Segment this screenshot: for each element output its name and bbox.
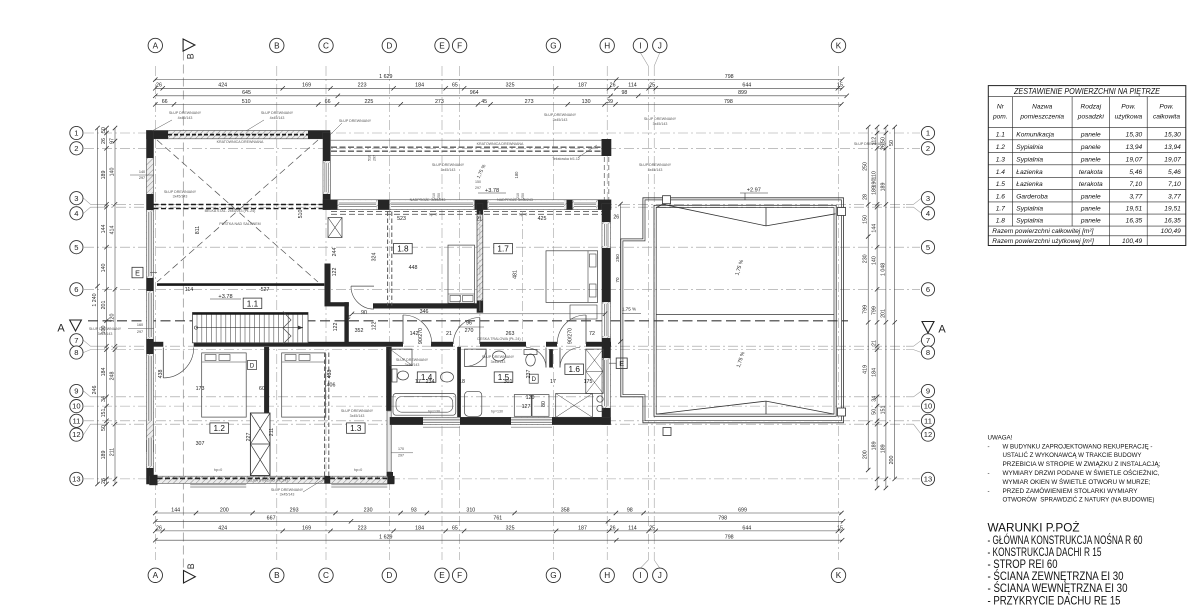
svg-text:A: A <box>57 323 65 335</box>
svg-text:100,49: 100,49 <box>1161 228 1182 235</box>
wall: top wall of rooms 1.8/1.7 (rows 3-4) <box>323 200 611 210</box>
svg-text:7,10: 7,10 <box>1168 181 1181 188</box>
svg-text:użytkowa: użytkowa <box>1115 114 1143 121</box>
svg-text:1.6: 1.6 <box>996 194 1005 201</box>
wall: divider bathrooms 1.4/1.5 (F axis) <box>457 347 461 418</box>
grid rows (dashed construction lines 1-13) <box>84 133 922 479</box>
wall: right outer wall (H axis, rooms 1.7/1.6) <box>602 204 611 425</box>
beam: glulam beam in top wall (bold dashes) <box>168 134 308 136</box>
svg-text:297: 297 <box>475 186 481 190</box>
svg-text:W BUDYNKU ZAPROJEKTOWANO REKUP: W BUDYNKU ZAPROJEKTOWANO REKUPERACJĘ - <box>1003 443 1153 450</box>
svg-text:posadzki: posadzki <box>1077 114 1105 121</box>
svg-text:7: 7 <box>74 336 78 345</box>
svg-text:799: 799 <box>863 305 869 314</box>
svg-text:4x45/143: 4x45/143 <box>178 116 193 120</box>
room label 1.2 <box>210 423 229 433</box>
svg-text:15: 15 <box>837 83 843 89</box>
svg-text:1 240: 1 240 <box>92 293 98 306</box>
svg-text:13: 13 <box>924 475 932 484</box>
svg-text:201: 201 <box>880 309 886 318</box>
svg-text:169: 169 <box>302 525 311 531</box>
svg-text:3x45/143: 3x45/143 <box>173 195 188 199</box>
svg-text:414: 414 <box>109 226 115 235</box>
svg-text:150: 150 <box>863 215 869 224</box>
bottom dimension chain row 1 <box>155 512 841 514</box>
svg-text:1.1: 1.1 <box>247 299 259 308</box>
bottom dimension chain row 2 <box>155 520 843 522</box>
svg-text:4: 4 <box>926 209 930 218</box>
svg-text:811: 811 <box>195 226 201 234</box>
wall: divider rooms 1.2/1.3 <box>264 347 269 413</box>
lintel dashes under top wall of 1.8/1.7 <box>331 210 610 212</box>
svg-text:pomieszczenia: pomieszczenia <box>1019 114 1064 121</box>
bed in room 1.3 <box>282 353 326 417</box>
svg-text:250: 250 <box>863 162 869 171</box>
svg-text:481: 481 <box>512 270 518 279</box>
svg-text:Sypialnia: Sypialnia <box>1016 218 1043 225</box>
svg-text:273: 273 <box>525 99 534 105</box>
svg-text:144: 144 <box>171 507 180 513</box>
tall bathtub in 1.5 <box>465 391 482 416</box>
svg-text:100,49: 100,49 <box>1122 238 1143 245</box>
window tag E <box>609 362 616 364</box>
svg-text:A: A <box>153 41 159 50</box>
svg-text:21: 21 <box>872 340 878 346</box>
notes WARUNKI P.POZ <box>988 521 1143 608</box>
dim line 346 over corridor <box>352 313 605 315</box>
svg-text:21: 21 <box>446 331 452 337</box>
svg-text:189: 189 <box>880 183 886 192</box>
roof plan inner edge (double) <box>654 205 836 416</box>
line under 96 dim <box>458 326 484 328</box>
svg-text:34: 34 <box>872 396 878 402</box>
door tag D (room 1.2) <box>248 361 257 370</box>
door to garderoba 1.6 <box>560 348 580 368</box>
svg-text:144: 144 <box>872 224 878 233</box>
room label 1.7 <box>494 243 513 253</box>
svg-text:5,46: 5,46 <box>1129 169 1142 176</box>
svg-text:200: 200 <box>889 456 895 465</box>
svg-text:1.1: 1.1 <box>996 131 1005 138</box>
svg-text:-: - <box>988 470 990 477</box>
svg-text:USTALIĆ Z WYKONAWCĄ W TRAKCIE: USTALIĆ Z WYKONAWCĄ W TRAKCIE BUDOWY <box>1003 452 1142 459</box>
svg-text:1.2: 1.2 <box>996 144 1005 151</box>
svg-text:H: H <box>604 571 610 580</box>
roof top valley <box>656 204 835 226</box>
svg-text:B: B <box>274 41 280 50</box>
top dimension chain row 1 (1 629 / 798) <box>155 79 842 81</box>
svg-text:65: 65 <box>452 525 458 531</box>
svg-text:26: 26 <box>345 315 351 321</box>
svg-text:Nr: Nr <box>997 104 1005 111</box>
svg-text:1.5: 1.5 <box>996 181 1005 188</box>
svg-text:+2.97: +2.97 <box>747 188 761 194</box>
svg-text:3x45/143: 3x45/143 <box>491 360 506 364</box>
svg-text:297: 297 <box>139 176 145 180</box>
svg-text:234: 234 <box>426 379 435 385</box>
svg-text:Łazienka: Łazienka <box>1016 169 1043 176</box>
wall: room 1.3 right wall <box>386 347 391 411</box>
svg-text:19,07: 19,07 <box>1126 156 1143 163</box>
svg-text:248: 248 <box>109 372 115 381</box>
room label 1.8 <box>394 243 413 253</box>
wall: corridor bottom wall (rows 7-8) with door openings <box>154 342 612 347</box>
svg-text:189: 189 <box>101 451 107 460</box>
wall: bathroom block bottom wall (row 12) <box>390 417 611 424</box>
svg-text:699: 699 <box>738 507 747 513</box>
svg-text:297: 297 <box>373 155 377 161</box>
svg-text:225: 225 <box>364 99 373 105</box>
two small circles fixtures in 1.6 <box>597 396 603 402</box>
svg-text:D: D <box>531 376 536 383</box>
svg-text:NADPROŻE 3x45/243: NADPROŻE 3x45/243 <box>497 197 533 202</box>
svg-text:798: 798 <box>725 74 734 80</box>
leader for tekstowka <box>578 145 597 158</box>
svg-text:230: 230 <box>863 254 869 263</box>
svg-text:1.7: 1.7 <box>996 206 1005 213</box>
svg-text:293: 293 <box>290 507 299 513</box>
svg-text:98: 98 <box>627 507 633 513</box>
section marker A right <box>922 322 946 336</box>
svg-text:406: 406 <box>327 383 336 389</box>
svg-text:A: A <box>938 324 946 336</box>
svg-text:10: 10 <box>72 402 80 411</box>
svg-text:26: 26 <box>156 83 162 89</box>
svg-text:65: 65 <box>452 83 458 89</box>
svg-text:189: 189 <box>872 186 878 195</box>
svg-text:SŁUP DREWNIANY: SŁUP DREWNIANY <box>341 409 374 413</box>
svg-text:150: 150 <box>475 180 481 184</box>
room label 1.3 <box>347 423 366 433</box>
svg-text:H: H <box>604 41 610 50</box>
svg-text:panele: panele <box>1080 131 1101 138</box>
svg-text:3x45/143: 3x45/143 <box>553 118 568 122</box>
svg-text:hp=0: hp=0 <box>214 468 223 472</box>
svg-text:227: 227 <box>246 433 252 442</box>
svg-text:SŁUP DREWNIANY: SŁUP DREWNIANY <box>854 142 887 146</box>
bed in room 1.8 <box>448 245 475 303</box>
wall: bottom outer wall (row 13) lintel dashes over windows <box>149 476 394 483</box>
right vertical dimension chains <box>867 127 869 470</box>
svg-text:C: C <box>323 41 329 50</box>
svg-text:1.7: 1.7 <box>497 245 509 254</box>
svg-text:całkowita: całkowita <box>1153 114 1180 121</box>
duct box with X left of room 1.8 <box>328 218 342 238</box>
svg-text:K: K <box>836 41 842 50</box>
door to bath 1.5 <box>526 348 546 368</box>
svg-text:26: 26 <box>610 525 616 531</box>
bottom wall posts <box>149 475 157 485</box>
svg-text:1.3: 1.3 <box>996 156 1005 163</box>
svg-text:8: 8 <box>926 348 930 357</box>
svg-text:1.4: 1.4 <box>996 169 1005 176</box>
washbasin in 1.4 <box>441 372 454 382</box>
svg-text:KRATOWNICA DREWNIANA: KRATOWNICA DREWNIANA <box>477 142 524 146</box>
svg-text:E: E <box>135 268 140 277</box>
svg-text:panele: panele <box>1080 156 1101 163</box>
svg-text:527: 527 <box>261 287 270 293</box>
beam: steel beam under void edge (bold dashed pair) <box>154 204 324 206</box>
shower in 1.4 (corner, top) <box>390 349 412 366</box>
svg-text:510: 510 <box>298 210 304 219</box>
svg-text:50: 50 <box>872 409 878 415</box>
svg-text:1: 1 <box>74 129 78 138</box>
svg-text:120: 120 <box>109 314 115 323</box>
svg-text:523: 523 <box>397 216 406 222</box>
roof bottom valley <box>656 401 834 414</box>
svg-text:140: 140 <box>872 256 878 265</box>
svg-text:211: 211 <box>269 428 275 436</box>
top dimension chain row 3 <box>155 95 846 97</box>
section marker B top (flag) <box>183 39 196 59</box>
svg-text:K: K <box>836 571 842 580</box>
svg-text:510: 510 <box>368 155 372 161</box>
svg-text:- PRZYKRYCIE DACHU RE 15: - PRZYKRYCIE DACHU RE 15 <box>988 593 1121 607</box>
svg-text:90: 90 <box>361 310 367 316</box>
svg-text:3,77: 3,77 <box>1129 194 1142 201</box>
svg-text:97: 97 <box>109 138 115 144</box>
toilet in 1.5 <box>524 350 537 367</box>
svg-text:6: 6 <box>74 285 78 294</box>
svg-text:39: 39 <box>607 99 613 105</box>
wall: stub 1.5/1.6 (G axis) <box>549 349 553 367</box>
svg-text:pom.: pom. <box>992 114 1008 121</box>
svg-text:151: 151 <box>880 406 886 415</box>
svg-text:645: 645 <box>242 90 251 96</box>
toilet in 1.4 <box>392 369 409 382</box>
svg-text:3x45/143: 3x45/143 <box>98 332 113 336</box>
svg-text:SŁUP DREWNIANY: SŁUP DREWNIANY <box>164 190 197 194</box>
room label 1.1 (hall) <box>243 298 262 308</box>
svg-text:19,07: 19,07 <box>1164 156 1181 163</box>
svg-text:G: G <box>550 41 556 50</box>
svg-text:Razem powierzchni użytkowej [m: Razem powierzchni użytkowej [m²] <box>992 238 1094 245</box>
grid columns (dashed construction lines A-K) <box>155 53 838 569</box>
svg-text:3: 3 <box>74 194 78 203</box>
svg-text:I: I <box>639 41 641 50</box>
svg-text:424: 424 <box>218 525 227 531</box>
svg-text:-: - <box>988 443 990 450</box>
svg-text:UWAGA!: UWAGA! <box>988 435 1013 442</box>
svg-text:246: 246 <box>92 386 98 395</box>
svg-text:144: 144 <box>101 225 107 234</box>
svg-text:PUSTKA NAD SALONEM: PUSTKA NAD SALONEM <box>219 222 260 226</box>
svg-text:66: 66 <box>325 99 331 105</box>
svg-text:438: 438 <box>327 370 333 379</box>
grid column bubbles top <box>148 38 846 52</box>
svg-text:273: 273 <box>435 99 444 105</box>
svg-text:122: 122 <box>372 322 378 331</box>
beam: solid edge of void / mezzanine line <box>157 283 324 286</box>
svg-text:187: 187 <box>578 83 587 89</box>
svg-text:18: 18 <box>459 379 465 385</box>
svg-text:510: 510 <box>242 99 251 105</box>
svg-text:E: E <box>439 571 445 580</box>
bathtub in 1.4 <box>393 394 456 416</box>
svg-text:SŁUP DREWNIANY: SŁUP DREWNIANY <box>396 358 429 362</box>
section marker A left <box>57 320 81 335</box>
svg-text:307: 307 <box>196 441 205 447</box>
area schedule table <box>988 86 1186 246</box>
svg-text:21: 21 <box>476 216 482 222</box>
svg-text:180: 180 <box>514 171 519 179</box>
svg-text:1.2: 1.2 <box>214 424 226 433</box>
svg-text:6: 6 <box>926 285 930 294</box>
svg-text:201: 201 <box>101 301 107 310</box>
svg-text:4x45/143: 4x45/143 <box>270 116 285 120</box>
svg-text:12: 12 <box>72 430 80 439</box>
svg-text:114: 114 <box>628 525 636 531</box>
svg-text:200: 200 <box>220 507 229 513</box>
door to room 1.7 <box>557 315 586 344</box>
svg-text:3x45/143: 3x45/143 <box>653 122 668 126</box>
svg-text:17: 17 <box>415 379 421 385</box>
svg-text:3x45/143: 3x45/143 <box>280 493 295 497</box>
door to room 1.2 <box>163 348 193 378</box>
dashed wall-below edge on C axis <box>324 353 326 477</box>
svg-text:297: 297 <box>137 330 143 334</box>
svg-text:D: D <box>250 362 255 369</box>
top dimension chain row 2 <box>155 87 842 89</box>
svg-text:114: 114 <box>185 287 193 293</box>
svg-text:1 048: 1 048 <box>880 263 886 276</box>
svg-text:244: 244 <box>332 248 338 257</box>
svg-text:358: 358 <box>561 507 570 513</box>
svg-text:PRZED ZAMÓWIENIEM STOLARKI WYM: PRZED ZAMÓWIENIEM STOLARKI WYMIARY <box>1003 488 1138 495</box>
svg-text:SŁUP DREWNIANY: SŁUP DREWNIANY <box>261 111 294 115</box>
svg-text:3x45/143: 3x45/143 <box>441 168 456 172</box>
svg-text:WYMIARY DRZWI PODANE W ŚWIETLE: WYMIARY DRZWI PODANE W ŚWIETLE OŚCIEŻNIC… <box>1003 469 1160 477</box>
svg-text:114: 114 <box>628 83 636 89</box>
shower in 1.5 (corner) <box>465 349 487 366</box>
svg-text:4: 4 <box>74 209 78 218</box>
svg-text:122: 122 <box>333 323 339 332</box>
svg-text:90/270: 90/270 <box>568 328 574 344</box>
mini dim chain right of H wall <box>620 204 622 342</box>
wall: L-wall at corridor top (near C/D) <box>325 264 331 306</box>
roof truss band over hall (kratownica drewniana) <box>330 140 604 155</box>
svg-text:D: D <box>386 41 392 50</box>
svg-text:17: 17 <box>550 379 556 385</box>
svg-text:1: 1 <box>926 129 930 138</box>
svg-text:2: 2 <box>926 144 930 153</box>
svg-text:15: 15 <box>837 525 843 531</box>
svg-text:hp=0: hp=0 <box>429 213 438 217</box>
svg-text:7: 7 <box>926 336 930 345</box>
svg-text:E: E <box>439 41 445 50</box>
svg-text:93: 93 <box>411 507 417 513</box>
wardrobe right in 1.6 (cross-hatched) <box>586 349 603 393</box>
svg-text:127: 127 <box>522 404 531 410</box>
svg-text:211: 211 <box>109 448 115 456</box>
svg-text:Rodzaj: Rodzaj <box>1081 104 1102 111</box>
svg-text:OTWORÓW SPRAWDZIĆ Z NATURY (N: OTWORÓW SPRAWDZIĆ Z NATURY (NA BUDOWIE) <box>1003 497 1155 504</box>
svg-text:BELKA STAL. 2x45/243 (PŁ.24): BELKA STAL. 2x45/243 (PŁ.24) <box>205 209 256 213</box>
svg-text:12: 12 <box>924 430 932 439</box>
svg-text:SŁUP DREWNIANY: SŁUP DREWNIANY <box>432 163 465 167</box>
svg-text:B: B <box>186 53 196 59</box>
svg-text:223: 223 <box>358 525 367 531</box>
svg-text:19,51: 19,51 <box>1164 206 1181 213</box>
svg-text:964: 964 <box>470 90 479 96</box>
svg-text:3x45/143: 3x45/143 <box>405 363 420 367</box>
svg-text:15,30: 15,30 <box>1126 131 1143 138</box>
door to room 1.8 <box>403 315 432 344</box>
svg-text:644: 644 <box>742 525 751 531</box>
svg-text:SŁUP DREWNIANY: SŁUP DREWNIANY <box>89 327 122 331</box>
svg-text:644: 644 <box>742 83 751 89</box>
svg-text:50: 50 <box>101 425 107 431</box>
svg-text:424: 424 <box>218 83 227 89</box>
window tag E left wall <box>150 272 157 274</box>
roof ridge line <box>656 313 834 315</box>
interior axis dash-dot lines room 1.7 <box>479 211 481 341</box>
svg-text:Sypialnia: Sypialnia <box>1016 156 1043 163</box>
svg-text:798: 798 <box>718 516 727 522</box>
svg-text:90/270: 90/270 <box>418 328 424 344</box>
svg-text:10: 10 <box>924 402 932 411</box>
svg-text:DESKA TRALOWA (PŁ.24): DESKA TRALOWA (PŁ.24) <box>477 337 520 341</box>
svg-text:16,35: 16,35 <box>1126 218 1143 225</box>
svg-text:419: 419 <box>863 365 869 374</box>
svg-text:D: D <box>386 571 392 580</box>
svg-text:panele: panele <box>1080 144 1101 151</box>
svg-text:11: 11 <box>72 416 80 425</box>
svg-text:terakota: terakota <box>1079 181 1103 188</box>
door to bath 1.4 (swings into corridor) <box>453 318 480 345</box>
svg-text:34: 34 <box>101 396 107 402</box>
svg-text:184: 184 <box>101 368 107 377</box>
svg-text:hp=0: hp=0 <box>354 468 363 472</box>
svg-text:3x45/143: 3x45/143 <box>350 414 365 418</box>
svg-text:210: 210 <box>516 193 520 199</box>
svg-text:SŁUP DREWNIANY: SŁUP DREWNIANY <box>644 117 677 121</box>
wardrobe bottom in 1.6 (cross-hatched) <box>556 394 593 418</box>
svg-text:798: 798 <box>724 99 733 105</box>
svg-text:16,35: 16,35 <box>1164 218 1181 225</box>
svg-text:310: 310 <box>466 507 475 513</box>
svg-text:15,30: 15,30 <box>1164 131 1181 138</box>
svg-text:F: F <box>457 41 462 50</box>
svg-text:325: 325 <box>506 525 515 531</box>
svg-text:761: 761 <box>493 516 502 522</box>
svg-text:PRZEBICIA W STROPIE W ZWIĄZKU: PRZEBICIA W STROPIE W ZWIĄZKU Z INSTALAC… <box>1003 461 1161 468</box>
svg-text:122: 122 <box>332 268 338 277</box>
svg-text:223: 223 <box>358 83 367 89</box>
svg-text:25: 25 <box>649 83 655 89</box>
svg-text:438: 438 <box>158 370 164 379</box>
svg-text:346: 346 <box>420 309 429 315</box>
svg-text:hp=130: hp=130 <box>428 410 440 414</box>
svg-text:189: 189 <box>880 444 886 453</box>
svg-text:175: 175 <box>584 379 593 385</box>
roof plan outline (double edge) <box>621 198 844 423</box>
svg-text:200: 200 <box>863 450 869 459</box>
window sills below bottom wall <box>190 484 246 486</box>
svg-text:SŁUP DREWNIANY: SŁUP DREWNIANY <box>271 488 304 492</box>
svg-text:189: 189 <box>872 441 878 450</box>
washer/dryer nook in 1.5 <box>514 395 549 417</box>
top dimension chain row 4 <box>155 103 841 105</box>
svg-text:230: 230 <box>364 507 373 513</box>
svg-text:237: 237 <box>526 370 532 379</box>
svg-text:3: 3 <box>926 194 930 203</box>
svg-text:5,46: 5,46 <box>1168 169 1181 176</box>
svg-text:325: 325 <box>506 83 515 89</box>
svg-text:1.6: 1.6 <box>569 365 581 374</box>
svg-text:Pow.: Pow. <box>1159 104 1173 111</box>
svg-text:B: B <box>274 571 280 580</box>
